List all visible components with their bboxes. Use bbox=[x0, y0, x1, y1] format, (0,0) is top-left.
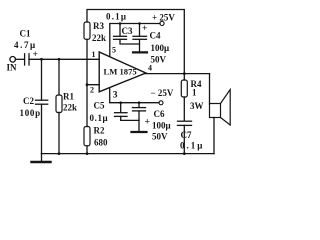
svg-text:C2: C2 bbox=[23, 96, 34, 106]
svg-text:+ 25V: + 25V bbox=[152, 13, 175, 23]
capacitor C5 bbox=[115, 113, 128, 117]
capacitor C3 bbox=[114, 36, 127, 39]
svg-text:0.1μ: 0.1μ bbox=[106, 12, 127, 22]
ground bar C3 C4 bbox=[133, 51, 147, 53]
svg-text:1: 1 bbox=[192, 88, 197, 98]
svg-text:3: 3 bbox=[113, 91, 118, 101]
svg-text:C1: C1 bbox=[20, 29, 31, 39]
svg-text:22k: 22k bbox=[92, 33, 106, 43]
node pin2 junction bbox=[86, 83, 89, 86]
wire C4 lower lead bbox=[139, 39, 141, 52]
capacitor C7 bbox=[178, 121, 192, 125]
svg-text:R1: R1 bbox=[63, 92, 74, 102]
wire R1 upper lead bbox=[58, 59, 60, 95]
node C6 tap on -rail bbox=[138, 101, 141, 104]
svg-text:680: 680 bbox=[94, 138, 108, 148]
wire R2 upper lead bbox=[86, 85, 88, 127]
wire R4 upper lead bbox=[183, 74, 185, 80]
svg-text:IN: IN bbox=[7, 63, 18, 73]
wire speaker to ground bbox=[213, 118, 215, 154]
svg-text:100p: 100p bbox=[20, 108, 41, 118]
node junction R1 tap bbox=[58, 58, 61, 61]
capacitor C1 bbox=[25, 54, 29, 65]
svg-text:+: + bbox=[142, 24, 147, 34]
svg-text:− 25V: − 25V bbox=[151, 88, 174, 98]
wire R2 lower lead bbox=[86, 146, 88, 154]
svg-text:0.1μ: 0.1μ bbox=[180, 141, 204, 151]
wire input to pin 1 bbox=[29, 58, 99, 60]
wire R3 to pin 2 bbox=[87, 39, 99, 84]
wire C6 upper lead bbox=[138, 103, 140, 108]
svg-text:3W: 3W bbox=[190, 101, 204, 111]
node C4 tap on +rail bbox=[138, 22, 141, 25]
wire C3 upper lead bbox=[119, 24, 121, 37]
svg-text:100μ: 100μ bbox=[152, 121, 171, 131]
input terminal IN bbox=[10, 57, 24, 63]
resistor R2 bbox=[84, 127, 90, 146]
node C7 ground bbox=[183, 152, 186, 155]
svg-text:LM 1875: LM 1875 bbox=[104, 67, 137, 77]
node output junction bbox=[183, 72, 186, 75]
op-amp U1 LM1875 bbox=[99, 52, 146, 92]
svg-text:C6: C6 bbox=[154, 109, 165, 119]
wire C4 upper lead bbox=[139, 24, 141, 37]
svg-text:5: 5 bbox=[112, 46, 116, 55]
+25V terminal bbox=[160, 21, 164, 25]
wire C5 upper lead bbox=[120, 103, 122, 113]
wire C2 lower lead bbox=[41, 104, 43, 153]
ground bar C5 C6 bbox=[132, 131, 147, 133]
wire ground rail bbox=[42, 153, 215, 155]
svg-text:50V: 50V bbox=[152, 132, 168, 142]
node C5 tap on -rail bbox=[119, 101, 122, 104]
svg-text:22k: 22k bbox=[63, 103, 77, 113]
svg-text:4.7μ: 4.7μ bbox=[14, 40, 37, 50]
node R2 ground bbox=[86, 152, 89, 155]
capacitor C4 bbox=[133, 36, 147, 39]
node C3 tap on +rail bbox=[119, 22, 122, 25]
svg-text:R2: R2 bbox=[94, 126, 105, 136]
wire C7 lower lead bbox=[183, 125, 185, 153]
svg-text:C7: C7 bbox=[181, 130, 192, 140]
wire C2 upper lead bbox=[41, 59, 43, 99]
svg-text:+: + bbox=[33, 50, 38, 60]
svg-text:+: + bbox=[145, 118, 150, 128]
resistor R4 bbox=[181, 80, 187, 97]
svg-text:C3: C3 bbox=[122, 26, 133, 36]
node R1 ground bbox=[58, 152, 61, 155]
svg-text:C4: C4 bbox=[150, 31, 161, 41]
svg-text:R3: R3 bbox=[93, 21, 104, 31]
svg-text:4: 4 bbox=[148, 64, 152, 73]
svg-text:50V: 50V bbox=[151, 55, 167, 65]
resistor R3 bbox=[84, 22, 90, 39]
capacitor C6 bbox=[133, 108, 146, 111]
svg-text:100μ: 100μ bbox=[151, 43, 170, 53]
wire output pin 4 bbox=[145, 73, 210, 75]
ground symbol bbox=[32, 154, 51, 162]
wire feedback top bbox=[87, 10, 184, 74]
wire R1 lower lead bbox=[58, 113, 60, 154]
wire R4 to C7 bbox=[183, 97, 185, 121]
wire output to speaker bbox=[209, 74, 211, 104]
svg-text:C5: C5 bbox=[94, 101, 105, 111]
svg-text:1: 1 bbox=[92, 50, 96, 59]
node junction C2 tap bbox=[40, 58, 43, 61]
wire pin 5 supply bbox=[110, 24, 160, 57]
-25V terminal bbox=[159, 101, 163, 105]
speaker LS bbox=[210, 90, 231, 126]
wire C6 lower lead bbox=[138, 111, 140, 132]
svg-text:2: 2 bbox=[90, 86, 94, 95]
capacitor C2 bbox=[36, 100, 48, 104]
resistor R1 bbox=[56, 95, 62, 113]
wire pin 3 lead bbox=[110, 89, 159, 103]
wire C5 bottom to C6 lead bbox=[121, 116, 139, 120]
wire C3 bottom to C4 lead bbox=[120, 39, 140, 44]
svg-text:0.1μ: 0.1μ bbox=[90, 113, 109, 123]
